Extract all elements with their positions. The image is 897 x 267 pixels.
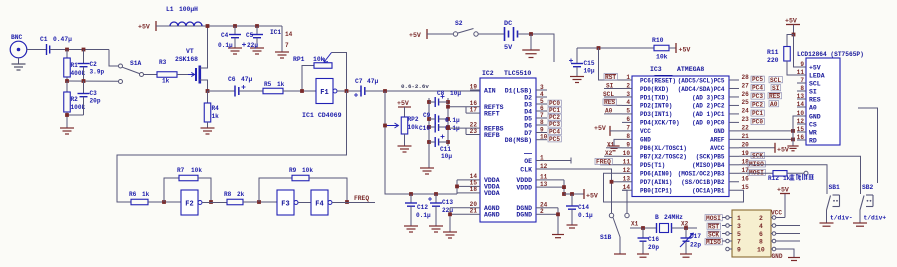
svg-text:CS: CS <box>809 121 817 128</box>
svg-text:IC1: IC1 <box>270 29 281 36</box>
svg-text:(MISO)PB4: (MISO)PB4 <box>692 162 725 169</box>
svg-text:0.1μ: 0.1μ <box>218 42 233 49</box>
svg-text:PC2: PC2 <box>549 114 560 121</box>
svg-text:7: 7 <box>737 239 741 246</box>
svg-text:PD7(AIN1): PD7(AIN1) <box>640 179 672 186</box>
svg-text:PB0(ICP1): PB0(ICP1) <box>640 188 672 195</box>
svg-text:X2: X2 <box>605 150 613 157</box>
svg-text:+5V: +5V <box>809 64 821 71</box>
svg-text:10: 10 <box>757 247 765 254</box>
svg-text:8: 8 <box>759 239 763 246</box>
svg-text:(OC1A)PB1: (OC1A)PB1 <box>692 188 725 195</box>
svg-text:RST: RST <box>708 223 719 230</box>
svg-text:(ADC4/SDA)PC4: (ADC4/SDA)PC4 <box>678 86 725 93</box>
svg-text:4: 4 <box>759 223 763 230</box>
svg-text:GND: GND <box>809 113 821 120</box>
svg-text:ATMEGA8: ATMEGA8 <box>677 66 704 73</box>
svg-text:220: 220 <box>767 57 779 64</box>
svg-text:AREF: AREF <box>710 137 725 144</box>
svg-text:20p: 20p <box>648 244 659 251</box>
svg-text:C12: C12 <box>417 204 428 211</box>
svg-text:C15: C15 <box>584 60 595 67</box>
svg-text:RST: RST <box>605 74 616 81</box>
svg-text:C17: C17 <box>690 233 701 240</box>
svg-text:22p: 22p <box>690 242 701 249</box>
svg-text:A0: A0 <box>809 104 817 111</box>
svg-text:1k: 1k <box>783 175 791 182</box>
svg-text:23: 23 <box>742 116 750 123</box>
svg-text:C4: C4 <box>221 32 229 39</box>
svg-text:OE: OE <box>524 158 532 165</box>
svg-text:F2: F2 <box>185 201 193 209</box>
svg-text:1k: 1k <box>142 191 150 198</box>
svg-text:A0: A0 <box>770 101 778 108</box>
svg-text:(AD 2)PC2: (AD 2)PC2 <box>692 103 725 110</box>
svg-text:X1: X1 <box>607 142 615 149</box>
svg-text:MOSI: MOSI <box>706 215 721 222</box>
svg-text:D2: D2 <box>524 94 532 101</box>
svg-text:FREQ: FREQ <box>354 195 369 202</box>
svg-text:6: 6 <box>759 231 763 238</box>
svg-text:WR: WR <box>809 129 817 136</box>
svg-text:1k: 1k <box>212 113 220 120</box>
svg-text:PD3(INT1): PD3(INT1) <box>640 111 672 118</box>
svg-text:28: 28 <box>742 74 750 81</box>
svg-text:AIN: AIN <box>484 87 496 94</box>
svg-text:10k: 10k <box>191 167 202 174</box>
svg-text:C7: C7 <box>355 78 363 85</box>
svg-text:26: 26 <box>742 91 750 98</box>
svg-text:1: 1 <box>737 215 741 222</box>
svg-text:10k: 10k <box>656 54 668 61</box>
svg-text:3.9p: 3.9p <box>90 69 105 76</box>
svg-text:C1: C1 <box>40 36 48 43</box>
svg-text:PD5(T1): PD5(T1) <box>640 162 665 169</box>
svg-text:SI: SI <box>606 82 614 89</box>
svg-text:RES: RES <box>604 99 615 106</box>
svg-text:10μ: 10μ <box>584 68 595 75</box>
svg-text:RP2: RP2 <box>408 116 419 123</box>
svg-text:TLC5510: TLC5510 <box>504 70 531 77</box>
svg-text:VCC: VCC <box>771 210 782 217</box>
svg-text:D3: D3 <box>524 101 532 108</box>
svg-text:D8(MSB): D8(MSB) <box>505 137 532 144</box>
svg-text:DC: DC <box>504 20 512 28</box>
svg-text:PB7(X2/TOSC2): PB7(X2/TOSC2) <box>640 154 687 161</box>
svg-text:PB6(XL/TOSC1): PB6(XL/TOSC1) <box>640 145 687 152</box>
svg-text:+5V: +5V <box>397 100 409 107</box>
svg-text:(MOSI/OC2)PB3: (MOSI/OC2)PB3 <box>678 171 725 178</box>
svg-text:VDDA: VDDA <box>484 190 500 197</box>
svg-text:18: 18 <box>470 186 478 193</box>
svg-text:IC1 CD4069: IC1 CD4069 <box>302 112 342 119</box>
svg-text:R12: R12 <box>768 175 779 182</box>
svg-text:19: 19 <box>470 83 478 90</box>
svg-text:R2: R2 <box>71 96 79 103</box>
svg-text:GND: GND <box>640 137 651 144</box>
svg-text:RES: RES <box>769 93 780 100</box>
svg-text:SI: SI <box>772 85 780 92</box>
svg-text:C6: C6 <box>228 76 236 83</box>
svg-text:REFB: REFB <box>484 132 500 139</box>
svg-text:10k: 10k <box>302 167 313 174</box>
svg-text:AGND: AGND <box>484 212 500 219</box>
svg-text:PC0: PC0 <box>549 100 560 107</box>
svg-text:C16: C16 <box>648 236 659 243</box>
svg-text:C9: C9 <box>423 112 431 119</box>
svg-text:9: 9 <box>737 247 741 254</box>
svg-text:R11: R11 <box>767 49 779 56</box>
svg-text:D1(LSB): D1(LSB) <box>505 87 532 94</box>
svg-text:25: 25 <box>742 99 750 106</box>
svg-text:PC5: PC5 <box>549 136 560 143</box>
svg-text:D7: D7 <box>524 130 532 137</box>
svg-text:PC1: PC1 <box>752 110 763 117</box>
svg-text:S1A: S1A <box>130 60 142 67</box>
svg-text:R10: R10 <box>652 37 664 44</box>
svg-text:R6: R6 <box>129 191 137 198</box>
svg-text:S2: S2 <box>455 20 463 27</box>
svg-text:R9: R9 <box>289 167 297 174</box>
svg-text:S1B: S1B <box>600 234 612 241</box>
svg-text:14: 14 <box>285 31 293 38</box>
svg-text:PC4: PC4 <box>752 85 763 92</box>
svg-text:CLK: CLK <box>520 166 532 173</box>
svg-text:AVCC: AVCC <box>710 145 725 152</box>
svg-text:B: B <box>655 214 659 221</box>
svg-text:X1: X1 <box>631 221 639 228</box>
svg-text:+5V: +5V <box>679 47 691 54</box>
svg-text:VDDD: VDDD <box>516 177 532 184</box>
svg-text:100μH: 100μH <box>179 6 198 13</box>
svg-text:+5V: +5V <box>777 146 789 153</box>
svg-text:21: 21 <box>470 208 478 215</box>
svg-text:+5V: +5V <box>594 125 606 132</box>
svg-text:2k: 2k <box>237 191 245 198</box>
svg-text:+5V: +5V <box>777 187 789 194</box>
svg-text:SI: SI <box>809 88 817 95</box>
svg-text:t/div+: t/div+ <box>864 215 887 222</box>
svg-text:SCL: SCL <box>809 80 821 87</box>
svg-text:20p: 20p <box>90 98 101 105</box>
svg-text:0.1μ: 0.1μ <box>445 117 460 124</box>
svg-text:R3: R3 <box>159 59 167 66</box>
svg-text:5V: 5V <box>504 44 513 52</box>
svg-text:D4: D4 <box>524 108 532 115</box>
svg-text:SB1: SB1 <box>829 184 841 191</box>
svg-text:(AD 1)PC1: (AD 1)PC1 <box>692 111 725 118</box>
svg-text:C11: C11 <box>440 146 451 153</box>
svg-text:DGND: DGND <box>516 212 532 219</box>
svg-text:C5: C5 <box>246 32 254 39</box>
svg-text:BNC: BNC <box>11 34 23 41</box>
svg-text:47μ: 47μ <box>241 76 253 83</box>
svg-text:PD4(XCK/T0): PD4(XCK/T0) <box>640 120 680 127</box>
svg-text:7: 7 <box>285 42 289 49</box>
svg-text:10k: 10k <box>313 56 325 63</box>
svg-text:GND: GND <box>772 253 783 260</box>
svg-text:22μ: 22μ <box>247 42 258 49</box>
svg-text:PD2(INT0): PD2(INT0) <box>640 103 672 110</box>
svg-text:LEDA: LEDA <box>809 72 825 79</box>
svg-text:2SK168: 2SK168 <box>175 56 198 63</box>
svg-text:24: 24 <box>742 108 750 115</box>
svg-text:+5V: +5V <box>409 32 421 39</box>
svg-text:27: 27 <box>742 82 750 89</box>
svg-text:PD6(AIN0): PD6(AIN0) <box>640 171 672 178</box>
svg-text:(SCK)PB5: (SCK)PB5 <box>696 154 725 161</box>
svg-text:GND: GND <box>714 128 725 135</box>
svg-text:C2: C2 <box>90 61 98 68</box>
svg-text:C13: C13 <box>442 199 453 206</box>
svg-text:PC2: PC2 <box>752 102 763 109</box>
svg-text:VT: VT <box>186 48 194 55</box>
svg-text:23: 23 <box>470 128 478 135</box>
svg-text:D5: D5 <box>524 115 532 122</box>
svg-text:t/div-: t/div- <box>830 215 853 222</box>
svg-text:C14: C14 <box>578 204 589 211</box>
svg-text:C8: C8 <box>437 90 445 97</box>
svg-text:47μ: 47μ <box>367 78 379 85</box>
svg-text:VCC: VCC <box>640 128 651 135</box>
svg-text:REFT: REFT <box>484 110 500 117</box>
svg-text:L1: L1 <box>166 6 174 13</box>
svg-text:R8: R8 <box>224 191 232 198</box>
svg-text:A0: A0 <box>605 108 613 115</box>
svg-text:F1: F1 <box>320 89 328 97</box>
svg-text:17: 17 <box>470 106 478 113</box>
svg-text:RES: RES <box>809 96 821 103</box>
svg-text:R5: R5 <box>264 81 272 88</box>
svg-text:C10: C10 <box>419 125 430 132</box>
svg-text:PD1(TXD): PD1(TXD) <box>640 94 669 101</box>
svg-text:LCD12864 (ST7565P): LCD12864 (ST7565P) <box>797 51 864 58</box>
svg-text:SCK: SCK <box>708 231 719 238</box>
svg-text:MISO: MISO <box>706 239 721 246</box>
svg-text:R7: R7 <box>177 167 185 174</box>
svg-text:RP1: RP1 <box>293 56 305 63</box>
svg-text:IC2: IC2 <box>482 70 494 77</box>
svg-text:0.47μ: 0.47μ <box>53 36 72 43</box>
svg-text:10k: 10k <box>408 124 419 131</box>
svg-text:16: 16 <box>742 176 750 183</box>
svg-text:(ADC5/SCL)PC5: (ADC5/SCL)PC5 <box>678 77 725 84</box>
svg-text:FREQ: FREQ <box>596 159 611 166</box>
svg-text:+5V: +5V <box>138 24 150 31</box>
svg-text:PC3: PC3 <box>549 121 560 128</box>
svg-text:IC3: IC3 <box>650 66 662 73</box>
svg-text:0.6-2.6v: 0.6-2.6v <box>401 83 429 90</box>
svg-text:D6: D6 <box>524 122 532 129</box>
svg-text:PD0(RXD): PD0(RXD) <box>640 86 669 93</box>
svg-text:R4: R4 <box>212 105 220 112</box>
svg-text:PC4: PC4 <box>549 129 560 136</box>
svg-text:2: 2 <box>759 215 763 222</box>
svg-text:RD: RD <box>809 137 817 144</box>
svg-text:X2: X2 <box>681 221 689 228</box>
svg-text:+5V: +5V <box>785 18 797 25</box>
svg-text:SCL: SCL <box>603 91 614 98</box>
svg-text:VDDD: VDDD <box>516 184 532 191</box>
svg-text:F3: F3 <box>281 201 289 209</box>
svg-text:0.1μ: 0.1μ <box>578 212 593 219</box>
svg-text:1k: 1k <box>277 81 285 88</box>
svg-text:F4: F4 <box>315 201 323 209</box>
svg-text:PC3: PC3 <box>752 93 763 100</box>
svg-text:(AD 0)PC0: (AD 0)PC0 <box>692 120 725 127</box>
svg-text:SCL: SCL <box>770 77 781 84</box>
svg-text:1k: 1k <box>162 78 170 85</box>
svg-text:R1: R1 <box>71 62 79 69</box>
svg-text:5: 5 <box>737 231 741 238</box>
svg-text:(AD 3)PC3: (AD 3)PC3 <box>692 94 725 101</box>
svg-text:PC0: PC0 <box>752 119 763 126</box>
svg-text:PC5: PC5 <box>752 76 763 83</box>
svg-text:+5V: +5V <box>586 193 598 200</box>
svg-text:(SS/OC1B)PB2: (SS/OC1B)PB2 <box>681 179 725 186</box>
svg-text:10μ: 10μ <box>441 153 452 160</box>
svg-text:SB2: SB2 <box>862 184 874 191</box>
svg-text:PC6(RESET): PC6(RESET) <box>640 77 676 84</box>
svg-text:C3: C3 <box>90 90 98 97</box>
svg-text:0.1μ: 0.1μ <box>416 212 431 219</box>
svg-text:3: 3 <box>737 223 741 230</box>
svg-text:PC1: PC1 <box>549 107 560 114</box>
svg-text:10μ: 10μ <box>450 90 461 97</box>
